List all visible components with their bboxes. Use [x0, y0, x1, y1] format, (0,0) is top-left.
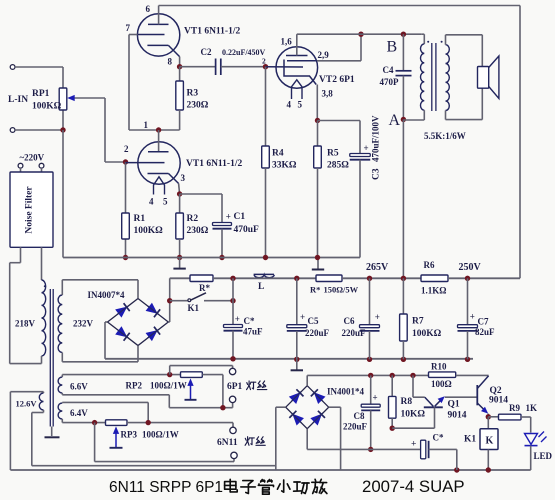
svg-text:232V: 232V: [73, 319, 94, 329]
svg-text:2007-4 SUAP: 2007-4 SUAP: [362, 477, 465, 496]
svg-text:100KΩ: 100KΩ: [412, 329, 442, 339]
svg-text:R4: R4: [272, 149, 284, 159]
svg-text:Q2: Q2: [490, 386, 502, 396]
svg-text:220uF: 220uF: [305, 328, 330, 338]
svg-text:B: B: [387, 39, 398, 56]
svg-text:RP2: RP2: [126, 381, 143, 391]
svg-text:1: 1: [144, 120, 149, 130]
svg-text:R9: R9: [509, 403, 520, 413]
svg-text:K: K: [486, 436, 494, 447]
svg-text:6: 6: [146, 4, 151, 14]
svg-text:7: 7: [126, 23, 131, 33]
svg-text:265V: 265V: [366, 262, 389, 273]
svg-text:R1: R1: [134, 214, 146, 224]
svg-text:6N11 SRPP 6P1: 6N11 SRPP 6P1: [109, 479, 223, 496]
svg-text:+: +: [364, 143, 369, 153]
svg-text:6P1: 6P1: [227, 382, 243, 392]
svg-text:470uF: 470uF: [234, 225, 260, 235]
svg-text:1.1KΩ: 1.1KΩ: [421, 286, 446, 296]
svg-text:R5: R5: [327, 149, 339, 159]
svg-text:2: 2: [262, 57, 266, 66]
svg-text:R*: R*: [199, 283, 210, 293]
svg-text:Noise Filter: Noise Filter: [25, 186, 35, 234]
svg-text:5.5K:1/6W: 5.5K:1/6W: [424, 131, 466, 141]
svg-text:+: +: [226, 212, 231, 222]
svg-text:C2: C2: [201, 47, 212, 57]
svg-text:0.22uF/450V: 0.22uF/450V: [222, 48, 266, 57]
svg-text:218V: 218V: [15, 319, 36, 329]
svg-text:100Ω: 100Ω: [431, 379, 452, 389]
svg-text:250V: 250V: [459, 262, 482, 273]
svg-text:10KΩ: 10KΩ: [401, 410, 426, 420]
svg-text:R*: R*: [310, 285, 320, 295]
svg-text:6.6V: 6.6V: [70, 382, 88, 392]
svg-text:33KΩ: 33KΩ: [272, 161, 297, 171]
svg-text:L: L: [258, 282, 264, 292]
svg-text:1,6: 1,6: [281, 37, 293, 47]
svg-text:+: +: [375, 312, 380, 322]
svg-text:+: +: [373, 393, 378, 403]
svg-text:C*: C*: [244, 316, 255, 326]
svg-text:4: 4: [287, 100, 292, 110]
svg-text:100Ω/1W: 100Ω/1W: [150, 381, 187, 391]
svg-text:IN4001*4: IN4001*4: [327, 387, 365, 397]
svg-text:R7: R7: [412, 317, 424, 327]
svg-text:+: +: [235, 314, 240, 324]
svg-text:220uF: 220uF: [343, 422, 368, 432]
svg-text:C3: C3: [372, 168, 382, 180]
svg-text:R10: R10: [431, 361, 447, 371]
svg-text:C8: C8: [354, 411, 365, 421]
svg-text:RP1: RP1: [32, 89, 50, 99]
svg-text:5: 5: [163, 197, 168, 207]
svg-text:47uF: 47uF: [243, 327, 263, 337]
svg-text:285Ω: 285Ω: [327, 161, 349, 171]
svg-text:220uF: 220uF: [342, 328, 367, 338]
svg-text:6.4V: 6.4V: [70, 408, 88, 418]
svg-text:R3: R3: [187, 89, 199, 99]
svg-text:K1: K1: [188, 303, 200, 313]
svg-text:+: +: [300, 312, 305, 322]
svg-text:C6: C6: [344, 316, 355, 326]
svg-text:VT2 6P1: VT2 6P1: [319, 75, 355, 85]
svg-text:A: A: [389, 112, 401, 129]
svg-text:R6: R6: [424, 260, 435, 270]
svg-text:470uF/100V: 470uF/100V: [371, 115, 381, 162]
svg-text:L-IN: L-IN: [8, 95, 28, 105]
svg-text:100KΩ: 100KΩ: [32, 102, 62, 112]
svg-text:RP3: RP3: [121, 430, 138, 440]
svg-text:R2: R2: [187, 214, 199, 224]
svg-text:R8: R8: [401, 397, 413, 407]
svg-text:2,9: 2,9: [318, 50, 330, 60]
svg-text:VT1 6N11-1/2: VT1 6N11-1/2: [186, 159, 242, 169]
svg-text:C*: C*: [433, 433, 444, 443]
svg-text:Q1: Q1: [448, 400, 460, 410]
svg-text:+: +: [470, 312, 475, 322]
svg-text:2: 2: [124, 144, 129, 154]
svg-text:4: 4: [149, 197, 154, 207]
svg-text:150Ω/5W: 150Ω/5W: [324, 285, 359, 295]
svg-text:LED: LED: [534, 451, 553, 461]
svg-text:IN4007*4: IN4007*4: [88, 290, 126, 300]
svg-text:+: +: [411, 440, 416, 450]
svg-text:C5: C5: [308, 316, 319, 326]
svg-text:5: 5: [298, 100, 303, 110]
svg-text:100Ω/1W: 100Ω/1W: [142, 430, 179, 440]
svg-text:82uF: 82uF: [475, 327, 495, 337]
svg-text:3,8: 3,8: [322, 89, 334, 99]
svg-text:K1: K1: [464, 435, 476, 445]
svg-text:9014: 9014: [448, 411, 467, 421]
svg-text:C7: C7: [478, 317, 489, 327]
svg-text:230Ω: 230Ω: [187, 226, 209, 236]
svg-text:1K: 1K: [526, 403, 538, 413]
svg-text:C4: C4: [383, 65, 394, 75]
svg-text:6N11: 6N11: [217, 438, 238, 448]
svg-text:8: 8: [168, 57, 173, 67]
svg-text:12.6V: 12.6V: [16, 399, 38, 409]
svg-text:100KΩ: 100KΩ: [134, 226, 164, 236]
svg-text:470P: 470P: [380, 77, 400, 87]
svg-text:~220V: ~220V: [20, 153, 45, 163]
svg-text:230Ω: 230Ω: [187, 101, 209, 111]
svg-text:C1: C1: [234, 212, 246, 222]
svg-text:9014: 9014: [489, 396, 508, 406]
svg-text:3: 3: [181, 173, 186, 183]
svg-text:VT1 6N11-1/2: VT1 6N11-1/2: [184, 27, 240, 37]
